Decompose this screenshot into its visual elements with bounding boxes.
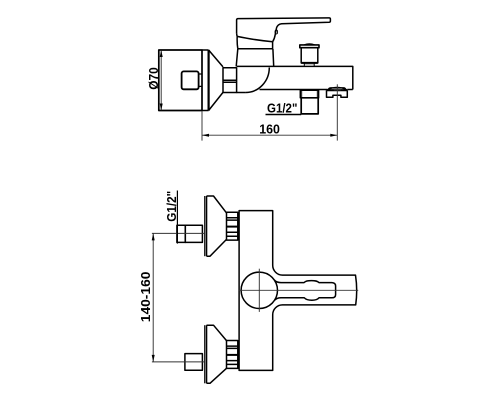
svg-text:140-160: 140-160 <box>138 272 153 323</box>
svg-text:Ø70: Ø70 <box>146 67 161 89</box>
svg-text:G1/2": G1/2" <box>267 101 297 115</box>
svg-text:160: 160 <box>259 122 280 137</box>
svg-text:G1/2": G1/2" <box>165 191 179 222</box>
